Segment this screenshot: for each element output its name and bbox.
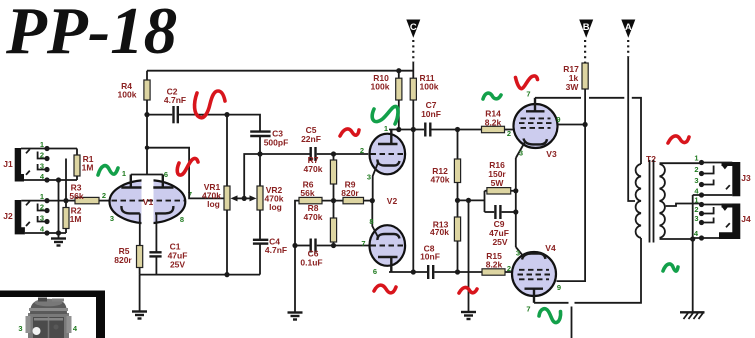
svg-text:2: 2	[102, 191, 106, 200]
capacitor C6	[292, 239, 368, 268]
resistor R6	[295, 180, 343, 246]
svg-text:100k: 100k	[420, 82, 439, 92]
svg-text:8: 8	[369, 217, 373, 226]
svg-text:820r: 820r	[114, 255, 132, 265]
photo inset: jack rear photo	[18, 298, 78, 338]
svg-text:8.2k: 8.2k	[485, 118, 502, 128]
tube V3	[507, 90, 561, 160]
svg-text:2: 2	[694, 205, 698, 214]
J4 pin 3	[694, 214, 729, 227]
resistor R13	[430, 217, 461, 272]
svg-text:5W: 5W	[491, 178, 505, 188]
svg-text:1: 1	[40, 140, 44, 149]
svg-text:8: 8	[180, 215, 184, 224]
V3 plate wire to transformer	[535, 98, 641, 164]
J4 pin 1	[694, 196, 732, 208]
svg-text:log: log	[269, 202, 282, 212]
ground (input jacks)	[51, 239, 66, 246]
svg-text:1: 1	[384, 124, 388, 133]
svg-text:470k: 470k	[304, 212, 323, 222]
bottom ground rail	[140, 274, 260, 276]
svg-text:J4: J4	[741, 214, 751, 224]
jack J1	[3, 148, 24, 182]
capacitor C5	[260, 125, 368, 161]
svg-text:3W: 3W	[566, 82, 580, 92]
svg-text:100k: 100k	[118, 90, 137, 100]
jack J2	[3, 200, 25, 234]
node R7/R6/R9/R8	[331, 198, 336, 203]
tube V2 upper triode	[360, 124, 405, 201]
svg-text:1: 1	[694, 154, 698, 163]
svg-text:2: 2	[40, 203, 44, 212]
node V2 cathodes / R9	[370, 198, 375, 203]
J1 pin 4	[24, 172, 77, 183]
tube V4	[507, 243, 561, 314]
svg-text:4.7nF: 4.7nF	[164, 95, 186, 105]
svg-text:log: log	[207, 199, 220, 209]
svg-text:1: 1	[694, 196, 698, 205]
green annotation left of V1	[98, 166, 118, 175]
svg-text:22nF: 22nF	[301, 134, 321, 144]
green annotation below V4	[539, 309, 561, 323]
svg-text:10nF: 10nF	[421, 109, 441, 119]
node C2 / VR1 top	[224, 112, 229, 117]
svg-text:7: 7	[526, 90, 530, 99]
ground drop from R16/R12 node	[466, 198, 471, 312]
J4 pin 4	[693, 229, 719, 241]
resistor R12	[431, 130, 461, 218]
tube V1	[102, 115, 192, 252]
svg-text:J3: J3	[741, 173, 751, 183]
red annotation near C2	[195, 91, 225, 118]
resistor R15	[458, 251, 513, 275]
svg-text:3: 3	[40, 214, 44, 223]
output ground column	[690, 195, 695, 312]
svg-text:0.1uF: 0.1uF	[300, 258, 322, 268]
svg-text:3: 3	[18, 324, 22, 333]
svg-text:820r: 820r	[341, 188, 359, 198]
wire C2 node to C3	[227, 115, 260, 131]
node C supply arrow	[406, 20, 420, 63]
capacitor C1	[149, 242, 187, 275]
V3/V4 cathode column	[513, 158, 518, 247]
red annotation above V3	[516, 76, 538, 89]
svg-text:7: 7	[526, 305, 530, 314]
resistor R7	[304, 154, 337, 201]
svg-text:4.7nF: 4.7nF	[265, 245, 287, 255]
red annotation right of V1	[177, 158, 198, 175]
svg-text:1: 1	[40, 192, 44, 201]
capacitor C3	[250, 129, 288, 155]
J1 pin 2	[38, 151, 50, 162]
svg-text:9: 9	[556, 115, 560, 124]
svg-text:6: 6	[164, 170, 168, 179]
svg-text:PP-18: PP-18	[5, 0, 177, 68]
wiper feed from C3	[244, 154, 260, 198]
svg-text:3: 3	[519, 149, 523, 158]
red annotation above J3	[668, 136, 689, 143]
resistor R10	[371, 68, 402, 129]
resistor R8	[304, 201, 337, 246]
transformer T2 secondary winding	[660, 164, 665, 238]
svg-text:3: 3	[367, 173, 371, 182]
R11 feedback column	[412, 130, 414, 273]
svg-text:J1: J1	[3, 159, 13, 169]
resistor R4	[118, 71, 151, 115]
wire V1 pin7 branch from plate column to VR1	[147, 148, 224, 199]
V2 anode wire / C7	[389, 100, 458, 137]
svg-text:25V: 25V	[170, 260, 185, 270]
node: R3-left / R2-top / J2-pin1	[63, 198, 68, 203]
capacitor C2	[147, 87, 227, 124]
node A supply arrow	[621, 20, 635, 58]
resistor R5	[114, 246, 142, 275]
svg-text:V2: V2	[387, 196, 398, 206]
secondary center tap to J4 pin1	[666, 204, 702, 207]
jack J3	[722, 162, 751, 196]
potentiometer VR2	[244, 185, 284, 212]
capacitor C4	[253, 210, 287, 275]
wire A supply down to T2 primary tap	[628, 57, 635, 201]
ground (V1 cathode rail)	[132, 312, 147, 319]
svg-text:470k: 470k	[304, 164, 323, 174]
svg-text:470k: 470k	[430, 227, 449, 237]
J2 pin 4	[25, 225, 66, 236]
svg-text:2: 2	[694, 165, 698, 174]
svg-text:2: 2	[507, 264, 511, 273]
green annotation left of V3	[483, 93, 501, 99]
ground drop under R5	[139, 275, 141, 311]
node C8 / R13	[455, 269, 460, 274]
wire ground drop from J1 pin4	[56, 177, 61, 238]
svg-text:56k: 56k	[69, 191, 83, 201]
V4 plate wire to transformer	[534, 238, 641, 303]
svg-text:2: 2	[360, 146, 364, 155]
svg-text:3: 3	[694, 176, 698, 185]
svg-text:A: A	[625, 22, 632, 33]
jack J4	[719, 204, 751, 240]
svg-text:3: 3	[40, 162, 44, 171]
resistor R11	[410, 62, 439, 130]
ground (output, earth symbol)	[680, 312, 705, 319]
svg-text:3: 3	[110, 214, 114, 223]
node C3 bottom / VR2 top / signal wire	[257, 151, 262, 156]
J1 pin 1	[21, 140, 77, 153]
svg-text:6: 6	[373, 267, 377, 276]
svg-text:3: 3	[694, 214, 698, 223]
svg-text:2: 2	[40, 151, 44, 160]
svg-text:V4: V4	[545, 243, 556, 253]
svg-text:2: 2	[507, 129, 511, 138]
svg-text:J2: J2	[3, 211, 13, 221]
wire stub to off-page (below V4)	[571, 307, 573, 338]
svg-text:56k: 56k	[300, 188, 314, 198]
svg-text:8.2k: 8.2k	[486, 260, 503, 270]
secondary top wire to J3 pin1	[660, 162, 703, 164]
node B supply arrow	[579, 20, 593, 64]
capacitor C9	[485, 205, 516, 247]
resistor R17	[563, 63, 588, 125]
J3 pin 3	[694, 176, 729, 189]
svg-text:B: B	[583, 22, 590, 33]
transformer T2 primary winding	[636, 154, 657, 238]
svg-text:25V: 25V	[492, 237, 507, 247]
potentiometer VR1	[202, 115, 244, 275]
transformer core	[650, 160, 654, 243]
wire J1 pin2 down to R3 node	[65, 159, 67, 201]
svg-text:3: 3	[516, 249, 520, 258]
svg-text:470k: 470k	[431, 175, 450, 185]
J1 pin 3	[26, 162, 50, 175]
ground (C6 node)	[288, 313, 303, 320]
tube V2 lower triode	[361, 201, 405, 276]
svg-text:1: 1	[122, 169, 126, 178]
green annotation above V2	[372, 106, 398, 124]
svg-text:T2: T2	[646, 154, 656, 164]
node C7 / R12	[455, 127, 460, 132]
svg-text:10nF: 10nF	[420, 252, 440, 262]
node R12/R13/R16	[455, 198, 460, 203]
node R7 top	[331, 151, 336, 156]
resistor R9	[341, 180, 372, 204]
svg-text:100k: 100k	[371, 82, 390, 92]
resistor R2	[63, 201, 82, 233]
svg-text:1M: 1M	[70, 214, 82, 224]
resistor R3	[66, 183, 110, 204]
secondary bottom wire	[660, 238, 693, 240]
svg-text:9: 9	[557, 283, 561, 292]
J2 pin 3	[26, 214, 50, 227]
ground drop R6/C6	[294, 246, 296, 313]
resistor R1	[74, 149, 94, 181]
top supply rail (node C)	[147, 70, 413, 72]
J3 pin 1	[694, 154, 732, 166]
red annotation above R7	[340, 129, 359, 136]
J2 pin 2	[38, 203, 50, 214]
svg-text:V1: V1	[143, 197, 154, 207]
svg-text:7: 7	[361, 239, 365, 248]
V3 screen wire to R17	[557, 124, 586, 126]
wire B column to V4 screen	[557, 125, 586, 282]
svg-text:C: C	[410, 22, 417, 33]
resistor R16 with C9 parallel	[458, 160, 516, 212]
green annotation below T2	[663, 264, 678, 271]
red annotation below V2	[374, 285, 396, 293]
V2 lower anode wire / C8	[389, 244, 458, 280]
J4 pin 2	[694, 205, 713, 216]
ground (output stage bias)	[461, 312, 476, 319]
node R4/C2/V1 plates	[144, 112, 149, 117]
svg-text:1M: 1M	[82, 163, 94, 173]
resistor R14	[458, 109, 515, 133]
J3 pin 2	[694, 165, 713, 176]
photo inset frame	[0, 291, 105, 338]
red annotation below R15	[459, 287, 477, 293]
svg-text:V3: V3	[546, 149, 557, 159]
J3 pin 4	[693, 187, 733, 198]
svg-text:500pF: 500pF	[264, 138, 289, 148]
J2 pin 1	[21, 192, 66, 205]
